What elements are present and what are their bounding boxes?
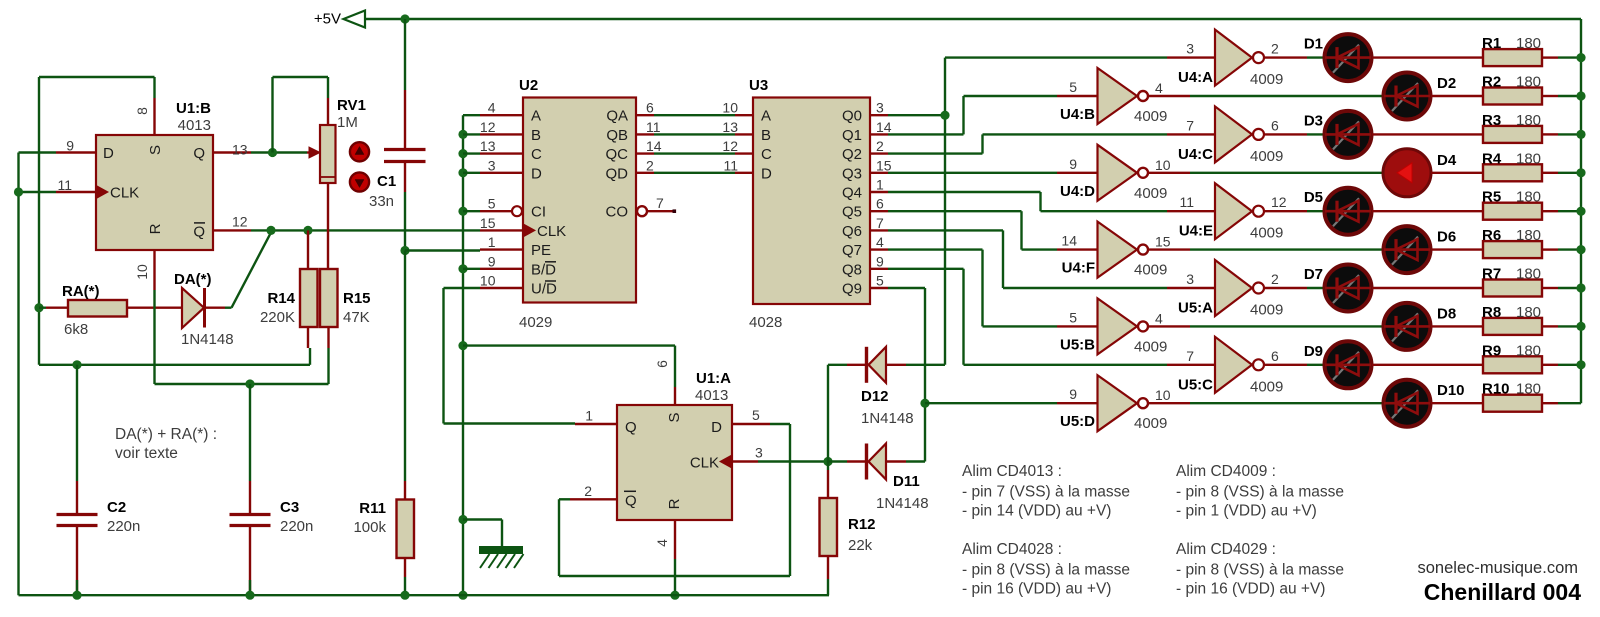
- svg-text:6: 6: [1271, 117, 1279, 133]
- U1:A pin 2 stub (Qbar): [570, 483, 617, 500]
- svg-text:R8: R8: [1482, 304, 1501, 321]
- wire R pin net horizontal: [155, 383, 329, 385]
- svg-text:14: 14: [646, 138, 662, 154]
- U3 pin name Q2: [842, 146, 862, 163]
- U1:B pin 9 stub (D): [56, 138, 96, 154]
- svg-text:8: 8: [134, 107, 150, 115]
- note DA RA voir texte: [115, 426, 217, 462]
- svg-text:14: 14: [1061, 233, 1077, 249]
- node S net C2 junction: [72, 360, 81, 369]
- svg-text:Q0: Q0: [842, 108, 862, 125]
- svg-text:R3: R3: [1482, 112, 1501, 129]
- resistor R2 body: [1483, 88, 1542, 105]
- resistor RA(*) body: [68, 300, 127, 317]
- flip-flop U1:A body: [617, 405, 732, 520]
- label U5:D: [1060, 413, 1095, 430]
- svg-text:R9: R9: [1482, 342, 1501, 359]
- U1:A pin name D: [711, 419, 722, 436]
- inverter U4:C output stub: [1264, 117, 1324, 134]
- label C3 value 220n: [280, 518, 313, 535]
- svg-text:D2: D2: [1437, 75, 1456, 92]
- inverter U4:B output stub: [1149, 80, 1384, 96]
- inverter U4:F: [1098, 222, 1149, 278]
- U2 pin 7 stub (CO): [637, 195, 676, 216]
- svg-text:S: S: [666, 412, 683, 422]
- label R11: [359, 500, 386, 517]
- label C1: [377, 173, 396, 190]
- label U5:D value 4009: [1134, 415, 1167, 432]
- label U4:B value 4009: [1134, 108, 1167, 125]
- wire S net left vertical: [38, 77, 40, 365]
- svg-text:5: 5: [1069, 309, 1077, 325]
- label U5:B: [1060, 336, 1095, 353]
- U3 pin name Q9: [842, 281, 862, 298]
- inverter U5:A: [1215, 260, 1264, 316]
- svg-text:QD: QD: [606, 165, 629, 182]
- wire Q0 vertical: [944, 58, 946, 365]
- svg-text:4009: 4009: [1134, 185, 1167, 202]
- svg-text:11: 11: [57, 177, 72, 193]
- label U5:C: [1178, 376, 1213, 393]
- inverter U4:C: [1215, 106, 1264, 162]
- U1:B CLK arrow: [97, 186, 108, 198]
- resistor R15 body: [320, 269, 338, 327]
- label C2 value 220n: [107, 518, 140, 535]
- wire LED D4 left: [1382, 172, 1384, 174]
- svg-text:Alim CD4009 :: Alim CD4009 :: [1176, 463, 1276, 480]
- inverter U4:B input stub: [1057, 79, 1098, 96]
- U3 pin 10 stub: [722, 100, 753, 116]
- wire U2 QB to U3: [654, 133, 735, 135]
- svg-text:CO: CO: [606, 204, 629, 221]
- svg-text:R12: R12: [848, 516, 876, 533]
- wire LED D8 left: [1382, 325, 1384, 327]
- svg-text:180: 180: [1516, 304, 1541, 321]
- svg-text:Q: Q: [193, 223, 205, 240]
- svg-text:2: 2: [584, 483, 592, 499]
- inverter U5:C output stub: [1264, 348, 1324, 365]
- svg-text:7: 7: [656, 195, 664, 211]
- U3 pin name C: [761, 146, 772, 163]
- label U4:F value 4009: [1134, 262, 1167, 279]
- label R7 value 180: [1516, 266, 1541, 283]
- wire LED D6 left: [1382, 248, 1384, 250]
- svg-text:R5: R5: [1482, 189, 1501, 206]
- svg-text:C1: C1: [377, 173, 396, 190]
- node bus ground-branch: [458, 515, 467, 524]
- U3 pin name Q1: [842, 127, 862, 144]
- label U1:A: [696, 370, 731, 387]
- wire D12 left vertical: [827, 365, 829, 462]
- svg-text:4009: 4009: [1134, 262, 1167, 279]
- svg-text:Q3: Q3: [842, 165, 862, 182]
- label U5:A value 4009: [1250, 302, 1283, 319]
- label D5: [1304, 189, 1323, 206]
- wire U1:A R to rail: [674, 559, 676, 595]
- svg-text:4009: 4009: [1134, 338, 1167, 355]
- RA left lead: [39, 307, 68, 309]
- svg-text:D: D: [103, 145, 114, 162]
- svg-text:1N4148: 1N4148: [181, 331, 234, 348]
- U3 pin name Q5: [842, 204, 862, 221]
- svg-text:R10: R10: [1482, 381, 1510, 398]
- wire right vertical rail: [1580, 19, 1582, 403]
- inverter U4:A input stub: [1167, 41, 1215, 58]
- svg-text:U5:D: U5:D: [1060, 413, 1095, 430]
- U1:B pin name CLK: [110, 185, 139, 202]
- wire Q4 route: [888, 192, 1167, 211]
- wire LED D10 to resistor: [1431, 402, 1483, 404]
- label U5:A: [1178, 300, 1213, 317]
- wire bus S-branch to U1:A S: [463, 346, 675, 387]
- U1:A pin 1 stub (Q): [575, 408, 617, 425]
- svg-text:U5:C: U5:C: [1178, 376, 1213, 393]
- wire U1:A CLK to D11 node: [758, 460, 828, 462]
- U2 pin 9 stub (B/D): [480, 253, 523, 269]
- svg-text:15: 15: [480, 215, 496, 231]
- U2 pin 1 stub (PE): [480, 234, 523, 250]
- wire Q8 route: [888, 269, 1167, 365]
- label U3: [749, 77, 768, 94]
- svg-text:4013: 4013: [178, 117, 211, 134]
- svg-text:RV1: RV1: [337, 97, 366, 114]
- svg-text:- pin 8 (VSS) à la masse: - pin 8 (VSS) à la masse: [1176, 484, 1344, 501]
- site name sonelec-musique.com: [1418, 559, 1579, 577]
- U1:B pin name D: [103, 145, 114, 162]
- svg-text:4: 4: [1155, 80, 1163, 96]
- wire LED D5 left: [1323, 210, 1325, 212]
- label R14 value 220K: [260, 309, 295, 326]
- svg-text:D10: D10: [1437, 382, 1465, 399]
- label R4: [1482, 150, 1502, 167]
- label U1:A value 4013: [695, 387, 728, 404]
- svg-text:7: 7: [1186, 117, 1194, 133]
- svg-text:1: 1: [585, 408, 593, 424]
- wire LED D7 left: [1323, 287, 1325, 289]
- node top rail to C1: [400, 14, 409, 23]
- svg-text:Alim CD4029 :: Alim CD4029 :: [1176, 541, 1276, 558]
- label U4:C value 4009: [1250, 148, 1283, 165]
- LED D6: [1384, 226, 1431, 273]
- label D1: [1304, 36, 1323, 53]
- svg-text:CI: CI: [531, 204, 546, 221]
- node rail C2: [72, 591, 81, 600]
- svg-text:4029: 4029: [519, 314, 552, 331]
- R5 right lead: [1542, 210, 1581, 212]
- wire LED D10 left: [1382, 402, 1384, 404]
- RV1 wiper mark: [320, 176, 336, 178]
- label R3: [1482, 112, 1501, 129]
- decoder U3 body: [753, 98, 870, 305]
- wire Q6 route: [888, 230, 1167, 288]
- resistor R9 body: [1483, 356, 1542, 373]
- svg-text:U4:F: U4:F: [1062, 260, 1095, 277]
- U1:A pin name Q: [625, 419, 637, 436]
- U3 pin name A: [761, 108, 771, 125]
- inverter U5:B output stub: [1149, 310, 1384, 326]
- wire LED D1 left: [1323, 56, 1325, 58]
- svg-text:Q1: Q1: [842, 127, 862, 144]
- wire LED D6 to resistor: [1431, 248, 1483, 250]
- node bus D: [458, 168, 480, 177]
- label U4:F: [1062, 260, 1095, 277]
- svg-text:4013: 4013: [695, 387, 728, 404]
- U2 pin 13 stub: [480, 138, 523, 154]
- node bus B: [458, 130, 480, 139]
- U2 pin name QD: [606, 165, 629, 182]
- U1:B pin 11 stub (CLK): [56, 177, 96, 193]
- svg-text:R7: R7: [1482, 266, 1501, 283]
- wire left vertical (D/CLK/ground): [17, 153, 19, 596]
- U2 pin name U/D: [531, 281, 557, 298]
- svg-text:1M: 1M: [337, 114, 358, 131]
- U3 pin 13 stub: [722, 119, 753, 135]
- resistor R7 body: [1483, 280, 1542, 297]
- svg-text:15: 15: [876, 157, 892, 173]
- svg-text:U3: U3: [749, 77, 768, 94]
- svg-text:10: 10: [1155, 387, 1171, 403]
- node rail C3: [245, 591, 254, 600]
- svg-text:4009: 4009: [1250, 378, 1283, 395]
- svg-text:9: 9: [1069, 156, 1077, 172]
- svg-text:RA(*): RA(*): [62, 283, 100, 300]
- wire LED D9 to resistor: [1372, 364, 1483, 366]
- svg-text:6: 6: [876, 196, 884, 212]
- svg-text:33n: 33n: [369, 193, 394, 210]
- resistor R10 body: [1483, 395, 1542, 412]
- note alim CD4029: [1176, 541, 1344, 598]
- svg-text:DA(*) + RA(*) :: DA(*) + RA(*) :: [115, 426, 217, 443]
- svg-text:3: 3: [876, 100, 884, 116]
- RV1 decrement button: [350, 172, 369, 191]
- wire U/D to U1:A Q: [444, 288, 576, 424]
- resistor R4 body: [1483, 164, 1542, 181]
- label R9 value 180: [1516, 342, 1541, 359]
- U1:A pin name R (rotated): [666, 498, 683, 509]
- svg-text:U1:B: U1:B: [176, 100, 211, 117]
- wire Q to RV1 net: [251, 151, 307, 153]
- svg-text:11: 11: [723, 157, 738, 173]
- U3 pin 14 stub (Q1): [870, 119, 892, 135]
- label U4:E value 4009: [1250, 225, 1283, 242]
- svg-text:U2: U2: [519, 77, 538, 94]
- label R10: [1482, 381, 1510, 398]
- label R7: [1482, 266, 1501, 283]
- wire row10 horizontal: [925, 402, 1057, 404]
- svg-text:180: 180: [1516, 342, 1541, 359]
- resistor R8 body: [1483, 318, 1542, 335]
- wire D11 to Q9 vertical: [906, 460, 925, 462]
- svg-text:- pin 16 (VDD) au +V): - pin 16 (VDD) au +V): [962, 581, 1111, 598]
- ground symbol: [480, 547, 524, 568]
- svg-text:180: 180: [1516, 381, 1541, 398]
- U2 pin name D: [531, 165, 542, 182]
- node rail row9: [1576, 360, 1585, 369]
- svg-text:Chenillard 004: Chenillard 004: [1424, 579, 1581, 605]
- wire LED D2 to resistor: [1431, 95, 1483, 97]
- svg-text:3: 3: [755, 445, 763, 461]
- flip-flop U1:B body: [96, 135, 213, 250]
- label R6: [1482, 227, 1501, 244]
- R7 right lead: [1542, 287, 1581, 289]
- svg-text:D4: D4: [1437, 152, 1457, 169]
- wire DA diagonal to Qbar: [225, 232, 271, 307]
- label C1 value 33n: [369, 193, 394, 210]
- LED D2: [1384, 73, 1431, 120]
- svg-text:10: 10: [722, 100, 738, 116]
- svg-text:11: 11: [646, 119, 661, 135]
- wire LED D3 to resistor: [1372, 133, 1483, 135]
- svg-text:U1:A: U1:A: [696, 370, 731, 387]
- label U1:B: [176, 100, 211, 117]
- svg-text:Alim CD4028 :: Alim CD4028 :: [962, 541, 1062, 558]
- inverter U5:D output stub: [1149, 387, 1384, 403]
- LED D5: [1325, 188, 1372, 235]
- svg-text:1: 1: [876, 177, 884, 193]
- U2 pin 2 stub: [636, 157, 654, 173]
- svg-text:6: 6: [646, 100, 654, 116]
- resistor R11 body: [397, 500, 415, 559]
- node PE C1 R11 junction: [400, 246, 409, 255]
- capacitor C1: [384, 19, 426, 251]
- svg-text:R2: R2: [1482, 74, 1501, 91]
- inverter U4:B: [1098, 68, 1149, 124]
- svg-text:R: R: [147, 223, 164, 234]
- node rail row4: [1576, 168, 1585, 177]
- svg-text:Alim CD4013 :: Alim CD4013 :: [962, 463, 1062, 480]
- label U4:E: [1179, 223, 1213, 240]
- svg-text:180: 180: [1516, 74, 1541, 91]
- wire Q2 route: [888, 134, 1167, 153]
- U2 pin name C: [531, 146, 542, 163]
- wire PE row: [405, 249, 480, 251]
- U3 pin 12 stub: [722, 138, 753, 154]
- svg-text:9: 9: [488, 253, 496, 269]
- label D11 value 1N4148: [876, 495, 929, 512]
- inverter U4:C input stub: [1167, 117, 1215, 134]
- U3 pin name D: [761, 165, 772, 182]
- svg-text:9: 9: [876, 253, 884, 269]
- inverter U4:A: [1215, 30, 1264, 86]
- svg-text:Q: Q: [625, 419, 637, 436]
- inverter U4:F input stub: [1057, 233, 1098, 250]
- node rail row6: [1576, 245, 1585, 254]
- svg-text:12: 12: [722, 138, 738, 154]
- wire D12 to Q0 vertical: [906, 364, 945, 366]
- svg-text:R1: R1: [1482, 35, 1501, 52]
- svg-text:12: 12: [232, 213, 248, 229]
- wire bottom rail: [19, 594, 830, 596]
- label C2: [107, 499, 126, 516]
- node Q net split: [268, 148, 277, 157]
- label R8: [1482, 304, 1501, 321]
- svg-text:D: D: [711, 419, 722, 436]
- wire Q3 route: [888, 172, 1057, 174]
- svg-text:Q5: Q5: [842, 204, 862, 221]
- power terminal arrow +5V: [344, 11, 366, 28]
- wire U2 QC to U3: [654, 152, 735, 154]
- U1:A pin name Qbar: [624, 491, 637, 509]
- LED D10: [1384, 380, 1431, 427]
- svg-text:- pin 14 (VDD) au +V): - pin 14 (VDD) au +V): [962, 503, 1111, 520]
- wire LED D7 to resistor: [1372, 287, 1483, 289]
- LED D4: [1383, 149, 1431, 197]
- svg-text:14: 14: [876, 119, 892, 135]
- U3 pin 6 stub (Q5): [870, 196, 888, 212]
- label DA value 1N4148: [181, 331, 234, 348]
- U2 pin name QC: [606, 146, 629, 163]
- U3 pin 4 stub (Q7): [870, 234, 888, 250]
- label R8 value 180: [1516, 304, 1541, 321]
- U2 pin 10 stub (U/D): [480, 273, 523, 289]
- label U4:C: [1178, 146, 1213, 163]
- note alim CD4009: [1176, 463, 1344, 520]
- label U4:D: [1060, 183, 1095, 200]
- svg-text:U4:A: U4:A: [1178, 69, 1213, 86]
- U3 pin 15 stub (Q3): [870, 157, 892, 173]
- note alim CD4013: [962, 463, 1130, 520]
- label C3: [280, 499, 299, 516]
- svg-text:5: 5: [488, 196, 496, 212]
- svg-text:- pin 8 (VSS) à la masse: - pin 8 (VSS) à la masse: [1176, 562, 1344, 579]
- svg-text:D5: D5: [1304, 189, 1323, 206]
- U3 pin name Q8: [842, 261, 862, 278]
- svg-text:2: 2: [1271, 271, 1279, 287]
- node bus CI: [458, 207, 480, 216]
- label RA value 6k8: [64, 321, 88, 338]
- wire U2 QD to U3: [654, 172, 735, 174]
- svg-text:180: 180: [1516, 150, 1541, 167]
- svg-text:Q: Q: [625, 492, 637, 509]
- svg-text:6: 6: [1271, 348, 1279, 364]
- diode D12: [828, 347, 906, 383]
- wire LED D4 to resistor: [1431, 172, 1483, 174]
- svg-text:4: 4: [488, 100, 496, 116]
- node U1:A R rail: [670, 591, 679, 600]
- svg-text:B/D: B/D: [531, 261, 556, 278]
- U2 pin name CI: [531, 204, 546, 221]
- RV1 increment button: [350, 142, 369, 161]
- svg-text:180: 180: [1516, 189, 1541, 206]
- svg-text:10: 10: [134, 264, 150, 280]
- wire Q0 stub: [888, 114, 945, 116]
- diode DA(*): [182, 288, 225, 328]
- label D6: [1437, 229, 1456, 246]
- svg-text:Q2: Q2: [842, 146, 862, 163]
- R14 top lead: [307, 230, 309, 269]
- wire CLK row to left: [19, 191, 57, 193]
- label D11: [893, 473, 920, 490]
- U1:B pin name S (rotated): [147, 145, 164, 155]
- label U2 value 4029: [519, 314, 552, 331]
- svg-text:47K: 47K: [343, 309, 370, 326]
- inverter U4:A output stub: [1264, 41, 1324, 58]
- U3 pin name Q6: [842, 223, 862, 240]
- U2 pin name CO: [606, 204, 629, 221]
- label R12: [848, 516, 876, 533]
- svg-text:10: 10: [480, 273, 496, 289]
- svg-text:- pin 8 (VSS) à la masse: - pin 8 (VSS) à la masse: [962, 562, 1130, 579]
- RV1 top lead: [327, 98, 329, 125]
- inverter U4:D: [1098, 145, 1149, 201]
- node D11 D12 R12 CLK junction: [823, 457, 832, 466]
- svg-text:4009: 4009: [1134, 108, 1167, 125]
- svg-text:4028: 4028: [749, 314, 782, 331]
- svg-text:A: A: [531, 108, 541, 125]
- svg-text:7: 7: [876, 215, 884, 231]
- node bus bottom rail: [458, 591, 467, 600]
- svg-text:D1: D1: [1304, 36, 1323, 53]
